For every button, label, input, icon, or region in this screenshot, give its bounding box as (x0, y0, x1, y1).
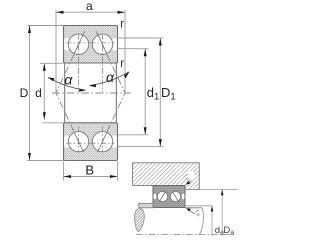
svg-text:r: r (120, 17, 124, 31)
arrow D top (28, 26, 31, 34)
row centerline bottom right (102, 127, 104, 153)
mini groove gap left (153, 194, 156, 200)
mini bearing outline (153, 186, 185, 208)
ball contact diagonal r1 left (74, 34, 83, 54)
svg-text:α: α (64, 72, 73, 88)
dimension a extension left (55, 10, 57, 93)
ball contact diagonal r2 right (98, 132, 107, 152)
arc arrow left-right end (79, 89, 86, 92)
B extension left (63, 162, 65, 181)
arc arrow right-left end (89, 84, 96, 87)
arrow D bottom (28, 153, 31, 161)
svg-text:B: B (85, 163, 94, 178)
alpha arc left (48, 78, 86, 91)
contact line left row (56, 31, 85, 152)
arrow Da (221, 190, 224, 196)
raceway groove gap bottom left (63, 135, 70, 148)
arrow B left (64, 175, 72, 178)
alpha arc right (90, 72, 130, 86)
arc arrow right end (124, 72, 130, 79)
inset ra housing label (182, 171, 193, 183)
svg-text:α: α (106, 69, 115, 85)
inset ra housing leader arrow (187, 181, 192, 185)
D1 extension top (118, 37, 164, 39)
ball contact diagonal r2 left (74, 132, 83, 152)
arrow B right (110, 175, 118, 178)
D1 extension bottom (118, 146, 164, 148)
dimension d line (43, 63, 45, 120)
inset mini bearing body (153, 186, 185, 208)
ball cross mark row2 right (91, 142, 115, 144)
arrow d1 top (144, 49, 147, 57)
ball contact diagonal r1 right (98, 34, 107, 54)
dimension a line (56, 11, 125, 13)
inset ra shaft label (193, 207, 204, 219)
bottom section outline (64, 123, 118, 161)
ball row1 right (92, 34, 112, 54)
dimension da line (211, 206, 213, 236)
arrow da (211, 206, 214, 212)
bearing top section body (64, 26, 118, 64)
shaft axis centerline (136, 234, 236, 236)
ball cross mark row1 left (67, 42, 91, 44)
arrow D1 top (159, 38, 162, 46)
dimension D line (29, 26, 31, 161)
svg-text:a: a (86, 0, 93, 13)
dimension a extension right (124, 10, 126, 93)
arrow a right (118, 11, 126, 14)
dimension B line (64, 176, 118, 178)
row centerline left (78, 34, 80, 93)
shaft break line (200, 208, 204, 235)
dimension d1 line (144, 49, 146, 135)
raceway groove gap bottom right (111, 135, 118, 148)
dimension D1 line (159, 38, 161, 147)
d1 extension top (118, 48, 149, 50)
arrow d1 bottom (144, 127, 147, 135)
contact line right row (96, 31, 125, 152)
mini ball right (170, 191, 180, 201)
raceway groove gap right (111, 38, 118, 51)
d1 extension bottom (118, 134, 149, 136)
arrow d bottom (43, 112, 46, 120)
bearing bottom section body (64, 123, 118, 161)
svg-text:r: r (120, 56, 124, 70)
mini ball left (157, 191, 167, 201)
mini contact mark left (160, 192, 166, 202)
row centerline bottom left (78, 127, 80, 153)
dimension Da extension (185, 189, 238, 191)
arrow d top (43, 63, 46, 71)
svg-text:D: D (20, 86, 29, 100)
mini groove gap right (182, 194, 185, 200)
svg-text:d: d (35, 86, 42, 100)
ball row2 left (68, 131, 88, 151)
D extension top (27, 25, 63, 27)
inset housing block (133, 163, 200, 190)
raceway groove gap left (63, 38, 70, 51)
dimension Da line (221, 190, 223, 237)
dimension da extension (185, 205, 212, 207)
bore face line right (115, 63, 117, 122)
arrow a left (56, 11, 64, 14)
ball row2 right (92, 131, 112, 151)
arrow D1 bottom (159, 139, 162, 147)
horizontal centerline (52, 92, 131, 94)
ball cross mark row2 left (67, 142, 91, 144)
d extension bottom (42, 122, 64, 124)
ball cross mark row1 right (91, 42, 115, 44)
shaft seat line right of bearing (185, 207, 202, 209)
bore face line left (64, 63, 66, 122)
shaft shoulder band (139, 203, 153, 207)
B extension right (117, 162, 119, 181)
row centerline right (102, 34, 104, 93)
ra housing label halo (185, 170, 194, 179)
mini contact mark right (173, 192, 179, 202)
top section outline (64, 26, 118, 64)
arc arrow left end (48, 77, 55, 81)
d extension top (40, 62, 64, 64)
ball row1 left (68, 34, 88, 54)
shaft broken end teardrop (135, 209, 145, 232)
D extension bottom (27, 160, 63, 162)
inset ra shaft leader arrow (188, 209, 196, 214)
